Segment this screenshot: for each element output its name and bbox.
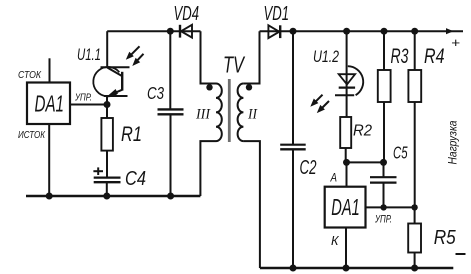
wire top rail to R3 <box>383 31 385 70</box>
resistor R3 <box>378 70 391 102</box>
svg-text:U1.2: U1.2 <box>313 48 339 66</box>
capacitor C2 <box>280 31 306 268</box>
wire winding III (bottom) to rail <box>200 141 216 196</box>
wire winding II (top) to VD1 <box>243 31 259 83</box>
pin К wire <box>345 228 347 269</box>
svg-text:III: III <box>195 107 211 123</box>
polarity dot winding II <box>246 84 252 90</box>
svg-text:C5: C5 <box>393 143 408 163</box>
photodiode U1.2 <box>335 31 363 117</box>
svg-text:УПР.: УПР. <box>374 214 392 226</box>
svg-text:VD1: VD1 <box>264 2 290 25</box>
chip DA1 (left, MOSFET driver) <box>27 83 70 125</box>
resistor R4 <box>408 70 421 102</box>
wire УПР node to R5 <box>414 207 416 223</box>
wire R1 to C4 <box>106 151 108 178</box>
svg-text:U1.1: U1.1 <box>77 46 101 64</box>
minus terminal mark <box>456 253 466 255</box>
wire junction to R1 <box>106 105 108 119</box>
pin ИСТОК wire <box>48 124 50 196</box>
polarity dot winding III <box>206 84 212 90</box>
node C2/bottom rail <box>290 265 297 272</box>
svg-text:TV: TV <box>223 52 246 78</box>
node C2/top rail <box>290 28 297 35</box>
resistor R2 <box>340 117 351 148</box>
wire top rail to R4 <box>414 31 416 70</box>
capacitor C4 (electrolytic) <box>93 167 120 182</box>
svg-text:Нагрузка: Нагрузка <box>448 121 460 165</box>
svg-text:C4: C4 <box>125 168 146 190</box>
node junction U1.1 emitter / R1 <box>104 101 111 108</box>
node R5/bottom rail <box>411 265 418 272</box>
light arrow out of U1.2 (lower) <box>317 101 329 113</box>
light arrow into U1.1 (upper) <box>126 46 140 60</box>
secondary bottom rail <box>260 267 453 269</box>
diode VD1 <box>268 25 280 38</box>
resistor R1 <box>101 118 113 151</box>
svg-text:УПР.: УПР. <box>74 92 92 104</box>
node U1.2/top rail <box>343 28 350 35</box>
node C5/УПР <box>380 204 386 210</box>
wire VD4 to winding III (top) <box>201 31 217 83</box>
arrowhead + output <box>446 28 454 34</box>
diode VD4 <box>180 25 192 38</box>
primary bottom rail <box>26 195 200 197</box>
wire U1.1 emitter down <box>106 96 108 105</box>
chip DA1 (right) <box>325 187 366 228</box>
svg-text:R4: R4 <box>424 45 445 68</box>
capacitor C3 <box>158 31 184 196</box>
transformer TV core <box>228 79 231 142</box>
svg-text:R5: R5 <box>434 227 457 249</box>
top rail (left half) <box>107 30 200 32</box>
svg-text:DA1: DA1 <box>331 194 360 220</box>
wire УПР (DA1 left to U1.1 emitter) <box>70 104 107 106</box>
svg-text:II: II <box>247 107 258 123</box>
top rail (right half) <box>260 30 464 32</box>
svg-text:К: К <box>331 233 340 248</box>
capacitor C5 <box>370 162 397 207</box>
node R3/C5 junction <box>380 159 387 166</box>
wire R5 to bottom rail <box>414 253 416 269</box>
winding III <box>216 84 222 142</box>
svg-text:DA1: DA1 <box>35 91 65 117</box>
wire node A to DA1 (right) <box>346 162 348 186</box>
node R3/top rail <box>381 28 388 35</box>
wire U1.1 collector to top rail <box>106 31 108 67</box>
light arrow out of U1.2 (upper) <box>310 95 322 107</box>
wire УПР (DA1 right) <box>366 206 415 208</box>
wire winding II (bottom) to secondary rail <box>243 141 260 268</box>
svg-text:R1: R1 <box>121 123 142 146</box>
wire R4 to УПР node <box>414 102 416 207</box>
wire C4 to bottom rail <box>106 182 108 196</box>
svg-text:C3: C3 <box>147 83 164 103</box>
wire R2 to node A <box>345 148 347 162</box>
svg-text:R3: R3 <box>391 45 409 68</box>
node R4-R5/УПР <box>411 204 417 210</box>
node ИСТОК/rail <box>46 193 53 200</box>
winding II <box>238 84 244 142</box>
svg-text:СТОК: СТОК <box>18 69 42 81</box>
svg-text:C2: C2 <box>300 157 317 179</box>
svg-text:+: + <box>451 35 460 50</box>
svg-text:А: А <box>330 173 338 185</box>
wire R3 to C5 node <box>383 102 385 162</box>
node C3/top rail <box>167 28 174 35</box>
wire node A to C5 top <box>347 161 384 163</box>
node A junction <box>343 159 350 166</box>
svg-text:VD4: VD4 <box>174 2 200 25</box>
pin СТОК wire <box>49 58 51 82</box>
resistor R5 <box>408 224 421 253</box>
phototransistor U1.1 <box>93 67 129 96</box>
light arrow into U1.1 (lower) <box>132 54 143 66</box>
node К/bottom rail <box>343 265 350 272</box>
node C4/rail <box>103 193 110 200</box>
svg-text:R2: R2 <box>353 123 372 140</box>
node C3/rail <box>167 193 174 200</box>
svg-text:ИСТОК: ИСТОК <box>18 129 46 141</box>
node R4/top rail <box>411 28 418 35</box>
